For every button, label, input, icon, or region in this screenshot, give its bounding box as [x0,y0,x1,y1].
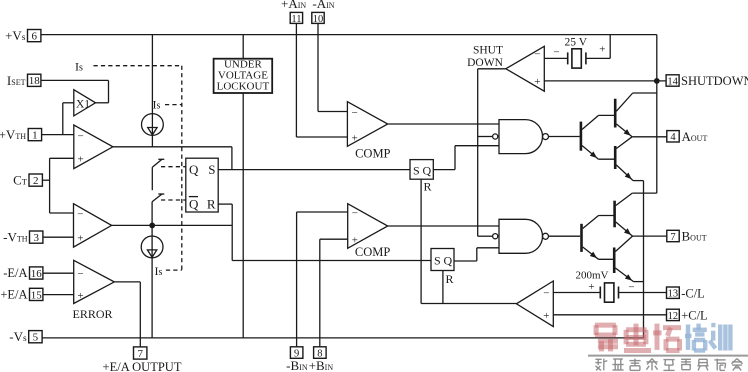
svg-text:16: 16 [31,268,43,280]
comparator U2 oscillator -VTH [74,204,112,247]
wire dashed Is horizontal top [94,65,182,67]
svg-text:12: 12 [668,311,679,322]
svg-text:s: s [79,62,83,73]
wire C/L output to latch resets [421,303,516,305]
wire X1 input [63,102,74,104]
flip-flop U3 oscillator latch [186,158,218,212]
svg-text:COMP: COMP [355,147,390,161]
current source Is1 [142,114,164,136]
pin 5 -Vs [29,331,42,343]
comparator U4 COMP A [347,102,387,147]
wire latchB R [442,271,444,304]
transistor Q6 B lower [613,248,616,274]
svg-text:7: 7 [670,232,675,243]
svg-text:13: 13 [668,289,679,300]
transistor Q5 B upper [613,201,616,228]
block UNDER VOLTAGE LOCKOUT [214,59,273,93]
transistor Q3 A lower [614,146,617,169]
svg-text:−: − [77,209,83,221]
wire dashed Qbar to switch S2 [161,199,186,201]
pin 1 +VTH [28,129,41,141]
bubble NAND B shutdown input [493,234,498,239]
wire -Vs bottom rail [42,337,643,339]
svg-text:R: R [446,272,454,286]
wire dashed Is vertical [181,66,183,270]
wire battery to pin 13 [619,292,667,294]
transistor Q2 A upper [614,99,617,128]
svg-text:7: 7 [137,348,143,360]
svg-text:18: 18 [29,75,41,87]
comparator U1 oscillator +VTH [74,125,113,169]
wire compB output to NAND B [388,225,499,227]
svg-text:+: + [543,310,549,322]
svg-text:+: + [599,43,605,55]
wire latchB Q to NAND B [454,260,477,262]
svg-text:+: + [77,232,83,244]
svg-text:200mV: 200mV [576,269,609,281]
wire pin10 to compA inverting [317,23,319,111]
pin 9 -BIN [290,347,303,359]
wire +Vs top rail [41,34,657,36]
wire compA output to NAND A [388,123,499,125]
comparator U9 C/L [516,281,553,327]
svg-text:25 V: 25 V [565,37,588,49]
svg-text:−: − [628,281,634,293]
svg-text:−: − [534,49,540,61]
pin 3 -VTH [30,231,43,243]
wire battery to +Vs [586,57,610,59]
wire pin1 to comp1 inverting input [42,134,74,136]
current source Is2 [141,236,163,258]
wire shutdown minus to battery [544,57,567,59]
wire dashed Q to switch S1 [161,166,186,168]
wire comp2 inverting input [50,212,74,214]
latch U6 S-Q A [410,160,433,180]
battery 25V [567,52,569,64]
svg-text:−: − [352,107,358,119]
svg-text:SHUTDOWN: SHUTDOWN [681,74,748,88]
svg-text:LOCKOUT: LOCKOUT [217,81,270,93]
svg-text:Q: Q [423,163,432,177]
pin 2 CT [29,174,42,186]
svg-text:X1: X1 [76,99,90,111]
svg-text:15: 15 [31,289,43,301]
node timing junction [149,223,155,229]
battery 200mV [599,287,601,299]
wire dashed Is mid [165,104,182,106]
svg-text:+: + [78,154,84,166]
svg-text:Q: Q [189,162,199,177]
wire pin8 to compB noninverting [319,239,321,347]
watermark big text [595,323,616,328]
wire pin3 to comp2 noninverting input [43,236,74,238]
wire latchA Q to NAND A [433,169,455,171]
wire NAND A output [549,136,580,138]
wire dashed Is bottom [166,269,182,271]
svg-text:Q: Q [189,196,199,211]
svg-text:R: R [207,196,216,211]
pin 7 BOUT [667,230,679,241]
NAND gate A [499,120,543,154]
wire comp2 output [112,224,233,226]
svg-text:−: − [352,208,358,220]
svg-text:S: S [434,254,441,268]
svg-text:+E/A OUTPUT: +E/A OUTPUT [103,360,182,372]
wire comp1 noninverting input [50,157,74,159]
bubble NAND A shutdown input [493,134,498,139]
svg-text:-E/A: -E/A [3,266,27,280]
wire latchA R [420,179,422,303]
pin 12 +C/L [667,309,680,320]
wire pin2 to timing node [42,179,49,181]
op-amp ERROR [74,260,115,303]
wire BOUT [633,235,667,237]
wire C/L minus to battery [553,292,600,294]
wire FF R line to latch B [218,203,232,205]
svg-text:COMP: COMP [355,245,390,259]
switch S2 [158,193,164,195]
wire pin16 to error amp [44,272,74,274]
wire error amp output to pin 7 [114,281,140,283]
wire UVLO to -Vs [242,93,244,338]
pin 13 -C/L [667,287,680,298]
svg-text:+: + [77,290,83,302]
transistor Q4 B driver [580,224,583,252]
switch S1 [158,158,164,160]
wire shutdown output rail [478,68,506,70]
svg-text:6: 6 [31,31,37,43]
svg-text:3: 3 [33,232,39,244]
svg-text:+: + [352,133,358,145]
svg-text:S: S [413,163,420,177]
wire FF S line to latch A [218,169,410,171]
amplifier X1 [74,90,96,116]
svg-text:−: − [543,287,549,299]
svg-text:−: − [77,268,83,280]
latch U7 S-Q B [431,249,454,271]
wire AOUT [632,136,667,138]
svg-text:14: 14 [667,76,678,87]
svg-text:10: 10 [313,14,324,25]
pin 7 +E/A OUTPUT [134,347,147,359]
comparator U8 SHUTDOWN [506,46,545,91]
svg-text:R: R [424,180,432,194]
watermark subtitle [595,358,601,360]
wire switch to -Vs through Is2 [151,202,153,338]
svg-text:s: s [157,100,161,111]
wire shutdown plus to pin 14 [544,80,666,82]
pin 10 -AIN [312,12,324,23]
pin 11 +AIN [290,12,302,23]
svg-text:+AIN: +AIN [281,0,306,11]
svg-text:1: 1 [32,130,38,142]
svg-text:11: 11 [291,14,301,25]
svg-text:+E/A: +E/A [0,288,27,302]
svg-text:+: + [588,281,594,293]
wire pin18 to X1 output [41,79,109,81]
pin 15 +E/A [30,288,43,300]
wire +Vs to UVLO [242,35,244,59]
svg-text:-C/L: -C/L [681,286,705,300]
svg-text:DOWN: DOWN [467,57,503,69]
svg-text:4: 4 [670,132,676,143]
svg-text:+C/L: +C/L [681,309,708,323]
svg-text:+: + [534,76,540,88]
transistor Q1 A driver [580,122,583,151]
wire NAND B output [549,235,581,237]
wire +Vs to current source Is1 [151,35,153,148]
wire +Vs rail to B-upper collector [632,192,657,194]
wire timing vertical [49,158,51,213]
svg-text:S: S [208,162,215,177]
comparator U5 COMP B [348,204,388,249]
svg-text:5: 5 [33,332,39,344]
pin 8 +BIN [314,347,327,359]
pin 4 AOUT [667,131,679,142]
wire emitter rail [643,181,645,338]
svg-text:Q: Q [444,254,453,268]
pin 14 SHUTDOWN [666,75,679,86]
pin 18 ISET [28,74,41,86]
node shutdown junction [654,78,660,84]
wire pin11 to compA noninverting [295,23,297,137]
svg-text:−: − [553,46,559,58]
wire pin9 to compB inverting [296,212,298,347]
wire C/L plus to pin 12 [553,314,666,316]
svg-text:ERROR: ERROR [72,307,112,321]
svg-text:-AIN: -AIN [312,0,334,11]
svg-text:s: s [159,267,163,278]
pin 6 +Vs [28,30,41,42]
wire comp1 output to FF set [113,146,232,148]
svg-text:2: 2 [33,175,39,187]
wire pin15 to error amp [44,294,74,296]
wire +Vs right rail segment [656,35,658,194]
pin 16 -E/A [30,267,43,279]
svg-text:−: − [78,130,84,142]
watermark underline [588,355,748,357]
svg-text:SHUT: SHUT [473,45,503,57]
NAND gate B [499,219,543,253]
